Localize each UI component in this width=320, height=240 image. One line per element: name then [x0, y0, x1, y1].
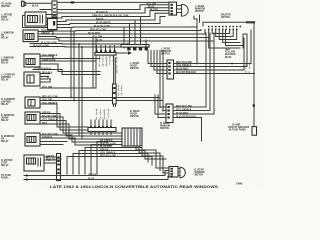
svg-text:BLUE: BLUE	[88, 178, 95, 180]
R rear window switch connector X2	[166, 104, 173, 123]
svg-text:YELLO: YELLO	[120, 86, 122, 97]
svg-text:RED-YELLOW: RED-YELLOW	[100, 155, 116, 157]
motor M2 body	[178, 167, 185, 178]
junction dot E	[78, 43, 80, 45]
wire: bottom long wire 2	[24, 176, 169, 180]
wire: K3 row3	[40, 60, 96, 62]
svg-text:BLUE-RED: BLUE-RED	[88, 33, 100, 35]
svg-text:RED: RED	[42, 123, 47, 125]
svg-text:DARK BLUE: DARK BLUE	[42, 59, 56, 62]
svg-text:GREEN: GREEN	[41, 33, 50, 35]
wire: K5 row3	[40, 104, 88, 127]
svg-text:PANEL: PANEL	[1, 177, 9, 180]
wire: X1 row3	[174, 38, 245, 70]
wire: K8 row3	[44, 162, 56, 164]
svg-text:YELLOW-BLK: YELLOW-BLK	[176, 65, 192, 67]
wire: K2 row2	[38, 33, 53, 35]
wire: K5 row1 long	[40, 97, 71, 99]
relay K5 R. current limiting relay box	[25, 97, 40, 108]
svg-text:RELAY: RELAY	[1, 103, 9, 106]
relay K3 L. window down relay box	[24, 54, 40, 67]
wire bundle: master switch cross links	[209, 30, 243, 48]
wire: K3 below green-blk	[33, 70, 100, 75]
wire: K2 below row	[30, 43, 128, 44]
wire: long vertical D x96	[95, 38, 97, 88]
svg-text:BLK OR RED-BLK: BLK OR RED-BLK	[176, 116, 196, 118]
svg-text:BLUE: BLUE	[225, 57, 232, 59]
wire: K2 row3 to bus y37.5	[38, 33, 210, 38]
svg-text:BLACK: BLACK	[150, 8, 158, 11]
svg-text:BLK-B: BLK-B	[117, 86, 119, 97]
wire: K6 row1	[40, 114, 92, 131]
wire: K3 row2	[40, 58, 53, 60]
junction dot K8a	[46, 156, 48, 158]
switch strip S4 with terminals	[88, 126, 116, 135]
svg-text:BLK-YELLOW: BLK-YELLOW	[100, 143, 116, 145]
motor M1 connector	[169, 2, 177, 15]
svg-text:BLUE: BLUE	[96, 40, 103, 42]
wire: feed to connector V1	[26, 2, 52, 4]
wire: K1 row 4 to bus y23.5	[46, 17, 165, 25]
wire: S2 feed a	[123, 27, 125, 45]
svg-text:RED-YELLOW: RED-YELLOW	[176, 106, 192, 108]
svg-text:GREEN: GREEN	[105, 57, 107, 68]
svg-text:YELLOW-BLK: YELLOW-BLK	[42, 55, 58, 57]
svg-text:YELLO: YELLO	[245, 64, 247, 75]
svg-text:BLK-YELLOW: BLK-YELLOW	[41, 42, 57, 44]
svg-text:RELAY: RELAY	[1, 140, 9, 143]
wire: S2 feed b	[129, 24, 131, 45]
svg-text:BLUE-RED: BLUE-RED	[176, 69, 188, 71]
svg-text:SWITCH: SWITCH	[1, 6, 10, 8]
wire: S2 feed c	[134, 20, 136, 45]
svg-text:TAN-BLK: TAN-BLK	[42, 136, 52, 139]
wire: K6 row4	[40, 124, 122, 139]
svg-text:RELAY: RELAY	[1, 119, 9, 122]
svg-text:YELLOW-BLK: YELLOW-BLK	[100, 152, 116, 154]
wire: S2 feed d	[140, 17, 142, 45]
svg-text:SWITCH: SWITCH	[221, 17, 230, 19]
wire: K4 row1	[40, 73, 50, 75]
svg-text:YELLO: YELLO	[102, 57, 104, 68]
svg-text:MOTOR: MOTOR	[195, 11, 204, 13]
L rear window switch connector X1	[167, 60, 174, 79]
switch strip S2 with terminals	[121, 45, 149, 51]
svg-text:GREEN: GREEN	[46, 156, 55, 158]
svg-text:BLK-R: BLK-R	[248, 64, 250, 75]
wire: motor1 link to master top	[199, 15, 201, 22]
wire: K4 row4	[40, 79, 50, 82]
svg-text:LT GREEN-BLK: LT GREEN-BLK	[34, 68, 51, 70]
wire: X2 row4	[173, 118, 202, 142]
svg-text:BLK-BLUE: BLK-BLUE	[96, 12, 108, 14]
svg-text:YELLOW-BLK: YELLOW-BLK	[42, 119, 58, 121]
svg-text:RED-YELLOW: RED-YELLOW	[90, 29, 106, 31]
svg-text:RED-YELLOW: RED-YELLOW	[42, 96, 58, 98]
svg-text:YELLOW: YELLOW	[42, 87, 53, 89]
svg-text:YELLOW: YELLOW	[92, 36, 103, 38]
wire: K2 below row2	[30, 47, 124, 49]
svg-text:RELAY: RELAY	[1, 79, 9, 82]
wire: motor2 staircase from band Q	[136, 142, 169, 174]
svg-text:BLK-YELLOW: BLK-YELLOW	[42, 134, 58, 136]
motor M2 connector	[169, 167, 178, 178]
wire: X1 row1	[174, 30, 252, 64]
svg-text:GREEN: GREEN	[88, 174, 97, 176]
svg-text:GREEN: GREEN	[103, 110, 105, 121]
svg-text:GREEN: GREEN	[42, 112, 51, 114]
wire: K7 row2	[40, 138, 112, 145]
junction dot K4a	[47, 76, 49, 78]
terminal: breaker top tap	[253, 104, 255, 107]
vertical labels right pair	[245, 64, 251, 75]
svg-text:BLK-B: BLK-B	[95, 110, 97, 121]
wire: master right down to breaker	[253, 30, 255, 127]
motor M1 body	[177, 4, 189, 16]
svg-text:SWITCH: SWITCH	[130, 116, 139, 118]
wire: X2 row2	[173, 36, 210, 111]
svg-text:RELAY: RELAY	[1, 164, 9, 167]
connector box S5	[122, 128, 142, 146]
circuit breaker CB1	[252, 127, 257, 136]
wire: X1 row2	[174, 34, 248, 67]
svg-text:GREEN: GREEN	[100, 149, 109, 151]
svg-text:BLUE-RED: BLUE-RED	[100, 146, 112, 148]
wire: X2 left feeds	[155, 95, 166, 118]
svg-text:YELLOW: YELLOW	[146, 4, 157, 6]
wire: K8 row2	[44, 159, 56, 161]
wire: S3 riser pair	[114, 55, 116, 84]
svg-text:NO-YELLOW: NO-YELLOW	[42, 116, 57, 118]
svg-text:RELAY: RELAY	[1, 37, 9, 40]
connector pin P1	[71, 1, 75, 3]
wire: K7 row4	[40, 144, 63, 146]
svg-text:MOTOR: MOTOR	[195, 175, 204, 177]
junction dot X1c	[231, 63, 233, 65]
junction dot K3a	[52, 58, 54, 60]
svg-text:RELAY: RELAY	[1, 19, 9, 22]
wire: K1 row 3 to bus y20	[46, 13, 169, 21]
vertical labels under S1	[98, 57, 114, 68]
wire: K4 row2	[40, 76, 48, 78]
svg-text:BLUE-WHITE: BLUE-WHITE	[96, 22, 111, 24]
svg-text:YELLOW: YELLOW	[42, 99, 53, 101]
wire: X2 row1	[173, 33, 206, 107]
relay K2 L. window up relay box	[23, 30, 38, 42]
connector J1 top-left feed	[22, 1, 27, 6]
wire: K2 row1 to bus y34	[38, 30, 205, 35]
svg-text:RELAY: RELAY	[1, 62, 9, 65]
svg-text:BLUE-RED: BLUE-RED	[176, 113, 188, 115]
wire: K6 row3	[40, 121, 122, 137]
svg-text:SWITCH: SWITCH	[130, 68, 139, 70]
junction dot F	[81, 46, 83, 48]
wire: long vertical B x74	[73, 31, 75, 101]
wire: K5 row2 cont	[74, 100, 163, 102]
connector V1 vertical strip	[52, 1, 57, 17]
junction dot K5d	[162, 110, 164, 112]
wire: K1 row 1 to bus y13	[46, 8, 169, 15]
svg-text:YELLO: YELLO	[99, 110, 101, 121]
svg-text:RED-Y: RED-Y	[112, 57, 114, 68]
wire: long vertical F x82	[81, 47, 83, 138]
svg-text:BLK-B: BLK-B	[98, 57, 100, 68]
switch strip S1 with terminals	[95, 46, 116, 56]
svg-text:BLUE: BLUE	[107, 110, 109, 118]
connector B2 box	[48, 19, 58, 30]
wire: K3 row1	[40, 56, 100, 59]
wire: K3 row4	[40, 64, 100, 72]
wire: K7 row1	[40, 135, 108, 142]
master switch SW1 body	[203, 22, 254, 30]
wire: bus y30.5	[46, 30, 201, 32]
svg-text:IN FUSE PANEL: IN FUSE PANEL	[229, 129, 247, 132]
svg-text:BLK-YELLOW: BLK-YELLOW	[33, 45, 49, 47]
svg-text:SWITCH: SWITCH	[161, 54, 170, 56]
svg-text:RED-BLK: RED-BLK	[42, 72, 53, 74]
svg-text:BLK-BLUE: BLK-BLUE	[115, 58, 117, 75]
svg-text:DK GREEN: DK GREEN	[100, 140, 113, 142]
wire: K2 row4 to bus y41	[38, 33, 214, 41]
wire: long vertical A x71	[70, 28, 72, 98]
arrow: bottom wire 1	[24, 174, 27, 177]
relay K1 L. motor stop relay box	[25, 12, 46, 26]
wire: X2 row3	[173, 41, 214, 114]
junction dot K5b	[73, 100, 75, 102]
svg-text:YELLOW-BLK: YELLOW-BLK	[176, 109, 192, 111]
wire: K1 row 2 to bus y16.5	[46, 11, 169, 18]
junction dot K4b	[49, 78, 51, 80]
wire: bus y27 to master left	[23, 16, 198, 28]
wire: K5 row1 cont	[71, 97, 160, 99]
connector V2 bottom strip	[57, 154, 61, 181]
junction dot X1a	[196, 63, 198, 65]
svg-text:WHITE: WHITE	[96, 19, 104, 21]
svg-text:LATE 1963 & 1964 LINCOLN CONVE: LATE 1963 & 1964 LINCOLN CONVERTIBLE AUT…	[50, 185, 219, 189]
relay K6 R. window down relay box	[25, 112, 40, 124]
svg-text:GRN-YELLOW OR BLK-YELLOW: GRN-YELLOW OR BLK-YELLOW	[92, 15, 129, 17]
wire: top yellow run to motor 1	[57, 1, 169, 3]
svg-text:BLK OR RED-BLK: BLK OR RED-BLK	[176, 72, 196, 74]
wire: K8 row1	[44, 156, 56, 158]
connector S3 inline	[113, 84, 117, 107]
wire: row y9.5	[40, 9, 52, 11]
wire: X1 row4	[174, 73, 255, 75]
wire bundle: S2 risers to L switch	[146, 40, 167, 111]
svg-text:SWITCH: SWITCH	[160, 128, 169, 130]
wire: yellow below K4 long	[40, 87, 96, 89]
vertical labels S3	[115, 58, 122, 97]
wire: long vertical C x93	[92, 38, 94, 88]
wire: K6 row2	[40, 117, 122, 133]
relay K8 R. motor stop relay box	[24, 155, 44, 171]
svg-text:BLK-YELLOW: BLK-YELLOW	[94, 26, 110, 28]
svg-text:BLK-YELLOW: BLK-YELLOW	[46, 159, 62, 161]
junction dot K8b	[48, 159, 50, 161]
arrow: bottom wire 2	[24, 178, 27, 181]
wire: K7 row3	[40, 141, 67, 143]
wire: motor1 down right pair	[194, 16, 197, 63]
pin P2 end of S1	[116, 51, 132, 55]
wire: bottom long wire 1	[24, 171, 169, 176]
relay K4 L. current limiting relay box	[24, 72, 40, 86]
relay K7 R. window up relay box	[25, 133, 40, 146]
wire: K4 row3	[40, 77, 48, 80]
wire: long vertical E x79	[78, 44, 80, 135]
junction dot K5c	[159, 106, 161, 108]
wire: verticals above S4	[91, 120, 111, 126]
wire: long bus y9.5	[57, 5, 169, 10]
junction dot X1b	[253, 73, 255, 75]
vertical labels above S4	[95, 110, 109, 121]
svg-text:BLUE: BLUE	[148, 7, 155, 9]
svg-text:14645: 14645	[236, 182, 243, 185]
wire: K5 row2 long	[40, 100, 74, 102]
wire band Q: hairpin staircase bottom-left	[67, 142, 152, 175]
svg-text:RED-YELLOW: RED-YELLOW	[176, 62, 192, 64]
svg-text:YELLOW-BLK: YELLOW-BLK	[42, 103, 58, 105]
svg-text:BLUE: BLUE	[109, 57, 111, 65]
junction dot K2a	[52, 33, 54, 35]
junction dot K5a	[70, 97, 72, 99]
svg-text:BLUE: BLUE	[32, 6, 39, 8]
svg-text:YELLOW-RED: YELLOW-RED	[41, 30, 57, 32]
